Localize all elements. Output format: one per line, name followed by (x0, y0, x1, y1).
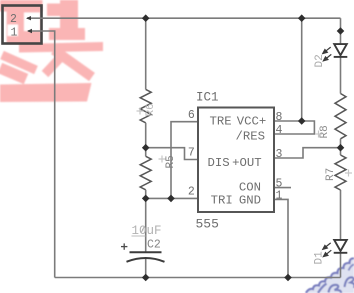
LED D2 arrows (323, 47, 332, 61)
svg-text:2: 2 (188, 186, 195, 199)
wire: R6 to junction (145, 123, 147, 157)
wire: mid column from top rail to R6 (145, 18, 147, 89)
crosshair near R7 (345, 170, 352, 177)
wire: pin 1 down to bottom rail (274, 199, 288, 277)
pink watermark stroke: diagonal right (51, 46, 95, 81)
svg-text:7: 7 (188, 147, 195, 160)
white patch behind connector pin label 1 (8, 25, 19, 37)
blue stamp watermark bottom-right (306, 258, 354, 293)
node: pin1 to bottom rail (284, 274, 292, 282)
IC pin function labels (208, 114, 267, 207)
svg-text:1: 1 (276, 189, 283, 202)
svg-text:1: 1 (11, 26, 18, 39)
pink watermark stroke: diagonal left upper (0, 51, 38, 74)
IC pin numbers right: 8, 4, 3, 5, 1 (276, 111, 283, 202)
node: top rail / mid column (142, 14, 344, 281)
LED D2 symbol (334, 44, 348, 57)
svg-text:2: 2 (10, 13, 17, 26)
svg-text:TRE: TRE (210, 114, 232, 128)
LED D1 arrows (323, 243, 332, 257)
svg-text:CON: CON (239, 181, 261, 195)
wire: R7 to LED D1 (340, 190, 342, 240)
stamp script digit 3 (345, 277, 354, 288)
node: VCC at pin8 (298, 117, 306, 125)
stamp script digit 1 (318, 284, 327, 293)
svg-text:R5: R5 (165, 155, 177, 168)
node: D2 anode stub (337, 27, 345, 35)
node: R6/R5 junction (142, 144, 150, 152)
resistor R8 zigzag (335, 94, 346, 139)
node: TRE-TRI tie (167, 195, 175, 203)
svg-text:8: 8 (276, 111, 283, 124)
IC pin numbers left: 6, 7, 2 (188, 109, 195, 199)
node: R5/C2/TRI junction (142, 195, 150, 203)
pink watermark stroke: left arm of glyph (47, 4, 62, 17)
IC1 555 box (198, 108, 274, 213)
wire: pin 2 from R5/C2 junction (146, 197, 198, 199)
svg-text:GND: GND (239, 194, 261, 208)
wire: pin 5 stub (274, 187, 291, 189)
crosshair near R6 (137, 108, 144, 115)
wire: top rail from connector pin 2 to top-right corner (27, 17, 341, 19)
white notch inside connector box (24, 13, 40, 32)
wire: VCC drop from top rail to pin 8 (301, 18, 303, 121)
svg-text:4: 4 (276, 124, 283, 137)
wire: R8 to junction to R7 (340, 139, 342, 155)
svg-text:D1: D1 (314, 251, 326, 265)
svg-text:R6: R6 (145, 103, 157, 116)
pink watermark stroke: strip filling connector box (7, 11, 41, 44)
wire: R5 junction down to capacitor (145, 190, 147, 253)
connector J1 box (3, 6, 42, 44)
wire: pin 6 to TRI net vertical (171, 122, 198, 199)
pink watermark stroke: diagonal left lower blob (0, 63, 28, 84)
wire: D1 cathode to bottom rail (340, 253, 342, 278)
svg-text:6: 6 (188, 109, 195, 122)
stamp script partial digit (349, 265, 354, 271)
svg-text:R7: R7 (325, 168, 337, 181)
svg-text:+OUT: +OUT (232, 156, 262, 170)
stamp body fill (306, 258, 354, 293)
wire: bottom rail (55, 277, 341, 279)
svg-text:555: 555 (196, 217, 219, 232)
node: top rail / vcc drop (298, 14, 306, 22)
capacitor C2 plates (127, 252, 165, 261)
node: R8/R7/pin3 junction (337, 144, 345, 152)
pink watermark stroke: wide tilted bar (19, 42, 103, 53)
wire: pin 8 net with pin 4 loop (274, 121, 314, 134)
wire: D2 cathode to R8 (340, 57, 342, 94)
wire: connector pin 1 stub and left drop (28, 31, 55, 278)
slash on the zero of 10uF (141, 227, 144, 233)
pink watermark stroke: top-left bar (0, 0, 43, 12)
LED D1 symbol (334, 240, 348, 253)
resistor R7 zigzag (335, 155, 346, 190)
resistor R6 zigzag (140, 89, 151, 122)
connector pin ticks (26, 16, 32, 33)
wire: right column top (to LED D2) (340, 18, 342, 44)
wire: capacitor bottom to rail (145, 259, 147, 278)
crosshair near R5 (159, 156, 166, 163)
wire: pin 3 to R8/R7 junction (274, 148, 341, 158)
node: cap to bottom rail (142, 274, 150, 282)
stamp scalloped edge (306, 258, 354, 293)
stamp script digit 2 (329, 285, 342, 293)
pink watermark stroke: vertical strip (60, 0, 78, 40)
capacitor C2 polarity plus (121, 243, 127, 249)
resistor R5 zigzag (140, 156, 151, 190)
svg-text:D2: D2 (314, 54, 326, 67)
pink watermark stroke: small slash piece (42, 56, 63, 77)
svg-text:3: 3 (276, 148, 283, 161)
crosshair near R8 (315, 131, 322, 138)
pink watermark stroke: mid wide piece (49, 28, 85, 40)
svg-text:/RES: /RES (236, 129, 266, 143)
wire: DIS jog from R6/R5 junction to pin 7 (146, 148, 198, 160)
svg-text:DIS: DIS (208, 156, 230, 170)
pink watermark stroke: bottom band (0, 83, 92, 102)
svg-text:VCC+: VCC+ (237, 114, 267, 128)
svg-text:C2: C2 (147, 238, 161, 251)
svg-text:IC1: IC1 (196, 91, 219, 105)
svg-text:TRI: TRI (211, 194, 233, 208)
svg-text:R8: R8 (319, 125, 331, 138)
